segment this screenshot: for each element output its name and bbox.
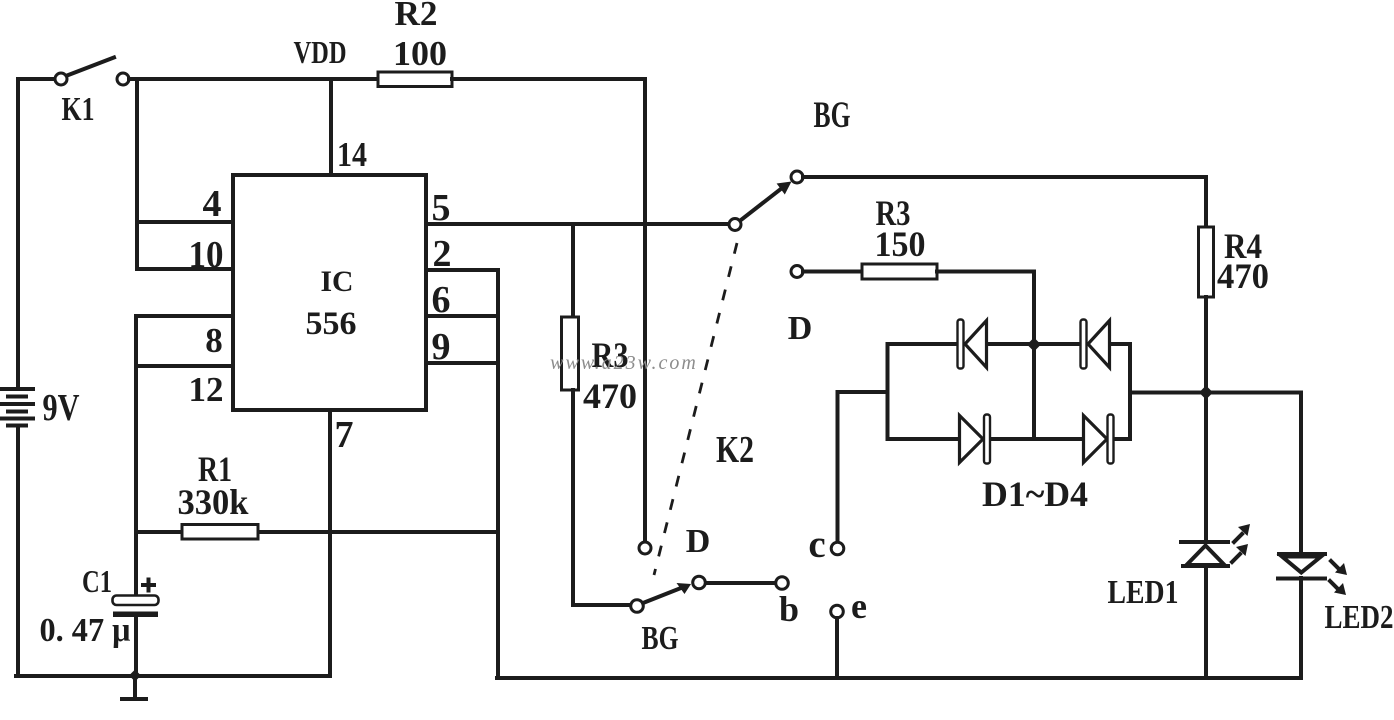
svg-text:8: 8 [205, 321, 223, 360]
svg-text:14: 14 [337, 135, 367, 174]
ground [122, 676, 146, 699]
label VDD [294, 34, 347, 70]
label R3 value 470 [583, 376, 637, 416]
label IC [321, 265, 354, 298]
node bridge top junction [1027, 338, 1041, 352]
label K1 [62, 91, 95, 128]
svg-text:5: 5 [432, 187, 451, 229]
resistor R4 [1199, 177, 1214, 392]
wire D to R3 [803, 270, 862, 274]
label b [779, 589, 799, 629]
svg-text:7: 7 [335, 414, 354, 456]
svg-text:C1: C1 [82, 563, 112, 599]
resistor R3 470 [562, 317, 579, 390]
node b terminal [776, 577, 789, 590]
label 9V [43, 387, 80, 429]
label K2 [716, 429, 754, 471]
svg-text:LED2: LED2 [1325, 599, 1394, 636]
resistor R3 150 [862, 264, 937, 279]
diode D1 [958, 320, 987, 369]
label pin 10 [189, 234, 224, 276]
svg-text:470: 470 [583, 376, 637, 416]
label 556 [306, 306, 357, 342]
wire bridge bottom rail [888, 437, 1131, 441]
wire R3 bottom to switch BG pole [573, 390, 630, 605]
node c terminal [831, 542, 844, 555]
svg-text:2: 2 [433, 233, 452, 275]
wire pins 2,6,9 vertical [496, 270, 500, 678]
wire bridge top rail [888, 342, 1131, 346]
wire LED2 to bottom rail [1299, 578, 1303, 678]
wire R3 to bridge center [937, 272, 1034, 440]
svg-text:556: 556 [306, 306, 357, 342]
label R2 value 100 [393, 34, 447, 73]
switch K1 [55, 58, 129, 86]
node e terminal [831, 605, 844, 618]
wire top rail K1 to R2 [129, 77, 378, 81]
wire bridge right output [1130, 391, 1301, 395]
wire bottom rail left [16, 674, 330, 678]
wire bridge left output to c [838, 392, 888, 542]
label pin 4 [203, 183, 222, 225]
svg-text:K2: K2 [716, 429, 754, 471]
svg-text:LED1: LED1 [1108, 574, 1179, 611]
label c [808, 523, 825, 566]
wire top rail left [18, 77, 55, 81]
wire pin 8 [136, 314, 233, 318]
svg-text:D: D [788, 310, 813, 347]
svg-text:100: 100 [393, 34, 447, 73]
wire right branch to LED2 [1299, 393, 1303, 554]
label C1 [82, 563, 112, 599]
wire pin 2 [426, 268, 498, 272]
wire pin 6 [426, 314, 498, 318]
svg-text:IC: IC [321, 265, 354, 298]
node R4 junction [1199, 386, 1213, 400]
transistor BG lower switch [631, 576, 706, 612]
wire pin 12 [136, 364, 233, 368]
wire pins 8,12 vertical to C1 [134, 316, 138, 595]
svg-text:c: c [808, 523, 825, 566]
LED LED2 [1278, 554, 1347, 595]
label R3 right [876, 193, 911, 233]
wire top rail R2 to corner [452, 77, 645, 81]
wire vertical to D terminal [643, 79, 647, 541]
label e [851, 586, 867, 626]
wire e to bottom rail [835, 618, 839, 678]
label D right [788, 310, 813, 347]
label R1 value 330k [178, 482, 249, 522]
label pin 9 [432, 326, 451, 368]
wire K2 dashed link [654, 243, 737, 575]
watermark [550, 352, 698, 374]
wire R4 to LED1 [1204, 393, 1208, 542]
svg-text:BG: BG [814, 95, 851, 136]
battery 9V [1, 389, 33, 426]
label R4 [1224, 226, 1262, 266]
label R3 value 150 [875, 224, 926, 264]
diode D3 [960, 415, 991, 464]
wire switch to b terminal [706, 581, 776, 585]
svg-text:0. 47 μ: 0. 47 μ [40, 612, 131, 649]
wire pin 14 [329, 79, 333, 175]
diode D4 [1084, 415, 1114, 464]
svg-text:330k: 330k [178, 482, 249, 522]
svg-text:K1: K1 [62, 91, 95, 128]
wire VDD to pins 4,10 [135, 79, 139, 269]
label pin 14 [337, 135, 367, 174]
label R3 middle [592, 335, 629, 375]
label LED2 [1325, 599, 1394, 636]
wire pin 10 [137, 267, 233, 271]
label BG top [814, 95, 851, 136]
label D middle [686, 523, 711, 560]
wire LED1 to bottom rail [1204, 566, 1208, 678]
label LED1 [1108, 574, 1179, 611]
wire bridge left bar [886, 344, 890, 439]
resistor R1 [182, 525, 258, 540]
svg-text:6: 6 [432, 279, 451, 321]
svg-text:VDD: VDD [294, 34, 347, 70]
wire pin 4 [137, 220, 233, 224]
wire left rail [16, 79, 20, 676]
wire pin 9 [426, 361, 498, 365]
svg-text:10: 10 [189, 234, 224, 276]
label C1 value 0.47u [40, 612, 131, 649]
svg-text:e: e [851, 586, 867, 626]
svg-text:R2: R2 [395, 0, 438, 33]
svg-text:D: D [686, 523, 711, 560]
svg-text:150: 150 [875, 224, 926, 264]
label pin 8 [205, 321, 223, 360]
resistor R3 470 vertical wire top [571, 224, 575, 317]
label pin 7 [335, 414, 354, 456]
junction ground node [129, 670, 141, 682]
label BG bottom [642, 620, 679, 657]
diode D2 [1081, 320, 1110, 369]
label D1~D4 [982, 474, 1088, 514]
svg-text:b: b [779, 589, 799, 629]
svg-text:12: 12 [189, 370, 224, 409]
node D terminal right [791, 266, 803, 278]
svg-text:470: 470 [1217, 256, 1269, 296]
wire pin 5 [426, 222, 729, 226]
node D terminal (middle) [639, 542, 651, 554]
wire C1 to bottom rail [134, 617, 138, 676]
label pin 6 [432, 279, 451, 321]
wire bottom rail right [497, 676, 1301, 680]
capacitor C1 [113, 580, 159, 618]
svg-text:BG: BG [642, 620, 679, 657]
wire BG collector rail [803, 175, 1206, 179]
label pin 5 [432, 187, 451, 229]
resistor R2 [378, 72, 452, 87]
svg-text:www.a23w.com: www.a23w.com [550, 352, 698, 374]
svg-text:9V: 9V [43, 387, 80, 429]
label R1 [198, 449, 232, 489]
label R4 value 470 [1217, 256, 1269, 296]
svg-text:9: 9 [432, 326, 451, 368]
LED LED1 [1181, 524, 1250, 566]
wire pin 7 [328, 410, 332, 676]
wire R1 row [136, 530, 498, 534]
op-amp IC 556 [233, 175, 426, 410]
wire bridge right bar [1128, 344, 1132, 439]
svg-text:D1~D4: D1~D4 [982, 474, 1088, 514]
transistor BG upper switch [729, 171, 803, 231]
label pin 12 [189, 370, 224, 409]
label R2 [395, 0, 438, 33]
svg-text:4: 4 [203, 183, 222, 225]
label pin 2 [433, 233, 452, 275]
